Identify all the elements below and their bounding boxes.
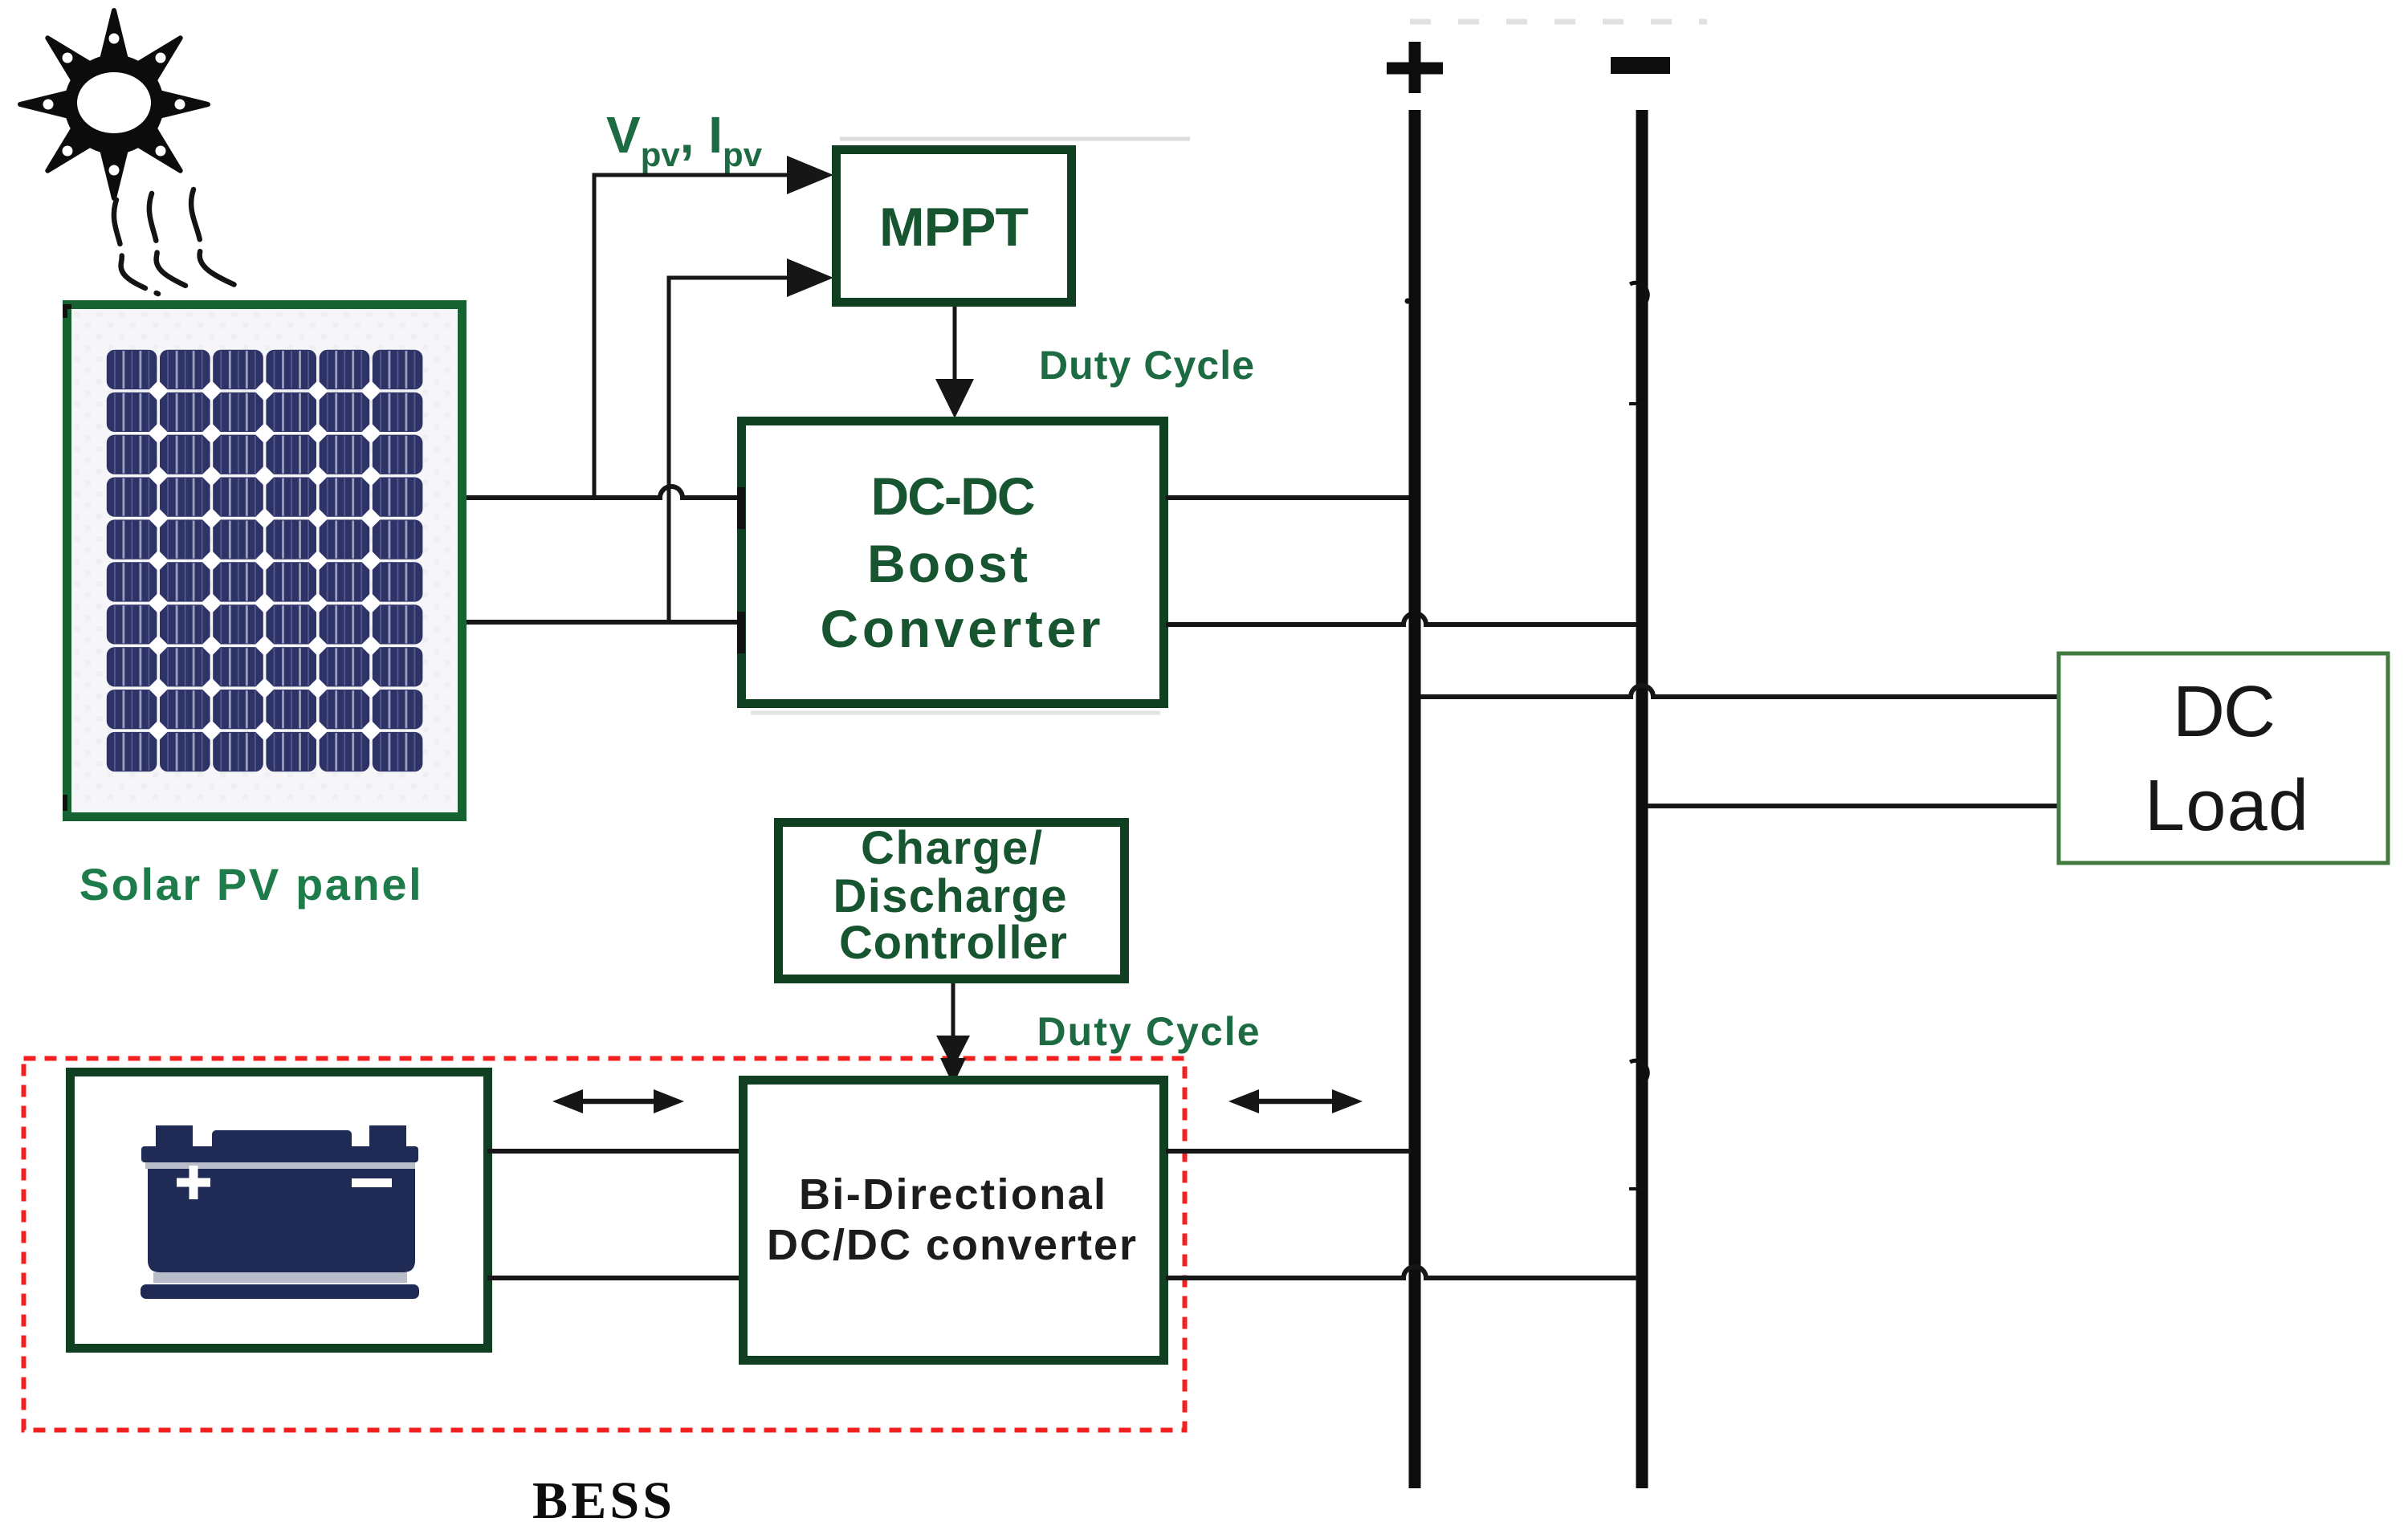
+ bus label (1387, 42, 1443, 93)
bidirectional arrow (converter/bus) (1248, 1099, 1343, 1105)
wire: battery to bi-directional converter (top) (487, 1149, 741, 1154)
arrowhead into bi-directional converter (936, 1036, 970, 1068)
MPPT controller box (840, 137, 1190, 141)
wire faint artifact dashes top (1410, 19, 1707, 25)
- bus label (1611, 57, 1670, 74)
wire: panel bottom output to DC-DC (467, 620, 740, 625)
wire: - bus to DC load (1648, 804, 2059, 808)
DC load box (2059, 653, 2388, 863)
arrowhead into DC-DC converter (935, 379, 974, 418)
svg-text:Duty Cycle: Duty Cycle (1039, 343, 1254, 388)
svg-text:DC/DC converter: DC/DC converter (767, 1221, 1136, 1269)
wire: controller duty cycle output (951, 983, 955, 1045)
svg-text:BESS: BESS (532, 1471, 672, 1522)
node: DC-DC input stubs (737, 487, 745, 529)
BESS boundary (red dashed) (24, 1059, 1185, 1430)
wire: DC-DC negative output to - bus (hop over + bus) (1166, 613, 1638, 625)
DC-DC boost converter box (742, 421, 1164, 704)
svg-text:DC-DC: DC-DC (871, 466, 1036, 526)
battery icon (141, 1125, 419, 1299)
bi-directional DC/DC converter box (744, 1080, 1164, 1361)
svg-text:Load: Load (2145, 766, 2308, 846)
svg-text:Solar PV panel: Solar PV panel (79, 859, 424, 910)
svg-text:Duty Cycle: Duty Cycle (1037, 1009, 1260, 1054)
battery - terminal mark (352, 1178, 392, 1187)
svg-text:MPPT: MPPT (879, 197, 1029, 258)
wire: converter to - bus (hop over + bus) (1166, 1267, 1638, 1278)
charge/discharge controller box (779, 823, 1125, 979)
wire: + bus to DC load (hop over - bus) (1420, 686, 2059, 697)
wire: MPPT duty cycle output (953, 307, 957, 384)
svg-text:Converter: Converter (821, 599, 1101, 658)
wire: I sense line to MPPT (669, 278, 790, 625)
sun rays (irradiance waves) (114, 200, 158, 294)
wire: panel top output to DC-DC (hop over I-sense) (467, 486, 740, 498)
wire: DC-DC positive output to + bus (1166, 495, 1411, 500)
wire: converter to + bus (top) (1166, 1149, 1411, 1154)
arrowhead into MPPT (second input) (787, 258, 833, 297)
panel corner marks (65, 307, 71, 318)
battery box (71, 1072, 488, 1349)
solar cell grid (107, 350, 423, 771)
bidirectional arrow (battery/converter) (572, 1099, 665, 1105)
svg-text:Discharge: Discharge (833, 870, 1067, 922)
svg-text:DC: DC (2173, 672, 2276, 752)
battery + terminal mark (177, 1166, 210, 1199)
arrowhead into MPPT (V,I sense) (787, 156, 833, 194)
svg-text:Boost: Boost (867, 534, 1028, 593)
svg-text:Controller: Controller (839, 917, 1067, 969)
solar PV panel box (67, 305, 462, 817)
- DC bus (1636, 110, 1648, 1488)
bus junction artifacts (1630, 283, 1648, 306)
sun icon (20, 10, 208, 198)
+ DC bus (1409, 110, 1421, 1488)
wire: V sense line to MPPT (594, 175, 790, 500)
wire: battery to bi-directional converter (bottom) (487, 1276, 741, 1280)
